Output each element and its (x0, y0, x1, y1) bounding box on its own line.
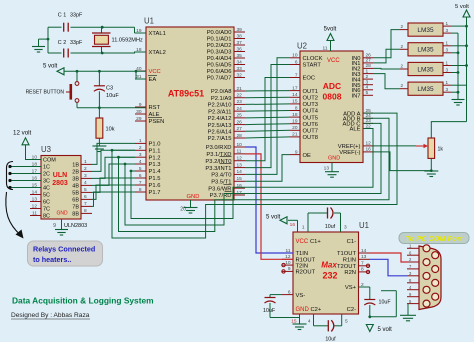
svg-text:U1: U1 (144, 17, 154, 26)
svg-text:7: 7 (361, 261, 364, 267)
svg-text:15: 15 (292, 99, 298, 105)
svg-text:P3.0/RXD: P3.0/RXD (206, 145, 232, 151)
svg-text:8C: 8C (43, 214, 50, 220)
svg-text:Data Acquisition & Logging Sys: Data Acquisition & Logging System (12, 296, 154, 306)
svg-text:26: 26 (366, 53, 372, 59)
svg-text:33pF: 33pF (70, 40, 83, 46)
svg-text:P2.4/A12: P2.4/A12 (208, 116, 232, 122)
svg-text:OUT4: OUT4 (303, 109, 319, 115)
svg-text:1: 1 (446, 41, 449, 46)
svg-text:1: 1 (446, 80, 449, 85)
svg-text:P2.3/A11: P2.3/A11 (208, 109, 231, 115)
svg-text:3: 3 (84, 173, 87, 179)
svg-text:VCC: VCC (296, 239, 309, 245)
svg-text:3B: 3B (72, 177, 79, 183)
svg-text:R2OUT: R2OUT (296, 270, 316, 276)
svg-text:GND: GND (296, 307, 310, 313)
svg-text:8: 8 (139, 187, 142, 193)
svg-text:C 1: C 1 (58, 13, 66, 19)
svg-text:28: 28 (366, 63, 372, 69)
svg-text:R2N: R2N (344, 270, 356, 276)
svg-text:To PC COM Port: To PC COM Port (406, 236, 463, 243)
svg-text:GND: GND (57, 211, 69, 217)
svg-text:T1IN: T1IN (296, 251, 309, 257)
svg-text:P0.0/AD0: P0.0/AD0 (207, 30, 232, 36)
svg-text:U2: U2 (297, 42, 307, 51)
svg-text:3: 3 (446, 67, 449, 72)
svg-text:9: 9 (53, 223, 56, 229)
svg-text:GND: GND (187, 194, 200, 200)
svg-text:IN7: IN7 (351, 94, 360, 100)
svg-text:2: 2 (366, 74, 369, 80)
svg-text:11: 11 (323, 46, 328, 52)
svg-text:C1+: C1+ (310, 239, 321, 245)
svg-text:P0.4/AD4: P0.4/AD4 (207, 56, 233, 62)
svg-text:AT89c51: AT89c51 (168, 89, 204, 99)
svg-text:P3.3/INT1: P3.3/INT1 (205, 166, 231, 172)
svg-text:Designed By : Abbas Raza: Designed By : Abbas Raza (11, 312, 90, 319)
svg-text:38: 38 (237, 33, 243, 39)
svg-text:11: 11 (32, 210, 37, 216)
svg-text:18: 18 (292, 112, 298, 118)
svg-text:27: 27 (237, 126, 243, 132)
svg-text:14: 14 (32, 189, 38, 195)
svg-text:3: 3 (446, 28, 449, 33)
svg-text:LM35: LM35 (417, 86, 434, 93)
svg-text:8: 8 (295, 105, 298, 111)
svg-text:33pF: 33pF (70, 13, 83, 19)
svg-text:1B: 1B (72, 163, 79, 169)
svg-text:6: 6 (139, 173, 142, 179)
svg-text:P0.3/AD3: P0.3/AD3 (207, 50, 232, 56)
svg-text:C3: C3 (106, 86, 113, 92)
svg-text:1C: 1C (43, 165, 50, 171)
svg-text:P2.6/A14: P2.6/A14 (208, 129, 233, 135)
svg-text:P3.4/T0: P3.4/T0 (211, 173, 231, 179)
svg-text:3: 3 (366, 80, 369, 86)
svg-text:EOC: EOC (303, 76, 316, 82)
svg-text:P1.3: P1.3 (149, 162, 161, 168)
svg-text:EA: EA (149, 77, 157, 83)
svg-text:4: 4 (84, 180, 87, 186)
svg-text:7: 7 (84, 201, 87, 207)
svg-text:LM35: LM35 (417, 47, 434, 54)
svg-text:ULN2803: ULN2803 (64, 223, 87, 229)
svg-text:3: 3 (344, 225, 347, 231)
svg-text:Max: Max (321, 261, 337, 270)
svg-text:12: 12 (237, 156, 243, 162)
svg-text:RESET BUTTON: RESET BUTTON (26, 90, 65, 96)
svg-text:11.0592MHz: 11.0592MHz (112, 38, 144, 44)
svg-text:1: 1 (446, 60, 449, 65)
svg-text:16: 16 (237, 183, 243, 189)
svg-text:P0.7/AD7: P0.7/AD7 (207, 76, 232, 82)
svg-text:9: 9 (295, 149, 298, 155)
svg-text:5: 5 (366, 90, 369, 96)
svg-text:2: 2 (139, 145, 142, 151)
svg-text:T2OUT: T2OUT (337, 264, 356, 270)
svg-text:R1IN: R1IN (343, 258, 356, 264)
svg-text:17: 17 (292, 85, 298, 91)
svg-text:T1OUT: T1OUT (337, 251, 356, 257)
svg-text:36: 36 (237, 46, 243, 52)
svg-text:232: 232 (322, 271, 337, 281)
svg-text:4: 4 (308, 319, 311, 325)
svg-text:14: 14 (361, 248, 367, 254)
svg-text:LM35: LM35 (417, 66, 434, 73)
svg-text:1: 1 (302, 225, 305, 231)
svg-text:10uf: 10uf (325, 224, 336, 230)
svg-text:26: 26 (237, 119, 243, 125)
svg-text:C 2: C 2 (58, 40, 66, 46)
svg-text:VREF(-): VREF(-) (339, 150, 360, 156)
svg-text:2: 2 (400, 24, 403, 29)
svg-text:25: 25 (237, 113, 243, 119)
svg-text:28: 28 (237, 133, 243, 139)
svg-text:GND: GND (328, 156, 340, 162)
svg-text:1: 1 (366, 68, 369, 74)
svg-text:10: 10 (285, 260, 291, 266)
svg-text:to heaters..: to heaters.. (33, 255, 71, 264)
svg-text:5: 5 (84, 187, 87, 193)
svg-text:T2IN: T2IN (296, 263, 309, 269)
svg-text:P0.5/AD5: P0.5/AD5 (207, 63, 232, 69)
svg-text:14: 14 (292, 92, 298, 98)
svg-text:PSEN: PSEN (149, 119, 165, 125)
svg-text:24: 24 (237, 106, 243, 112)
svg-text:7: 7 (295, 72, 298, 78)
svg-text:6B: 6B (72, 198, 79, 204)
svg-text:P3.2/INT0: P3.2/INT0 (205, 159, 231, 165)
svg-text:VS+: VS+ (345, 285, 357, 291)
svg-text:21: 21 (237, 86, 243, 92)
svg-text:5C: 5C (43, 193, 50, 199)
svg-text:2C: 2C (43, 172, 50, 178)
svg-text:5 volt: 5 volt (266, 215, 281, 221)
svg-text:3: 3 (446, 48, 449, 53)
svg-text:P3.7/RD: P3.7/RD (210, 193, 232, 199)
svg-text:35: 35 (237, 53, 243, 59)
svg-text:COM: COM (43, 158, 56, 164)
svg-text:P2.2/A10: P2.2/A10 (208, 103, 232, 109)
svg-text:6C: 6C (43, 200, 50, 206)
svg-text:5: 5 (139, 166, 142, 172)
svg-text:27: 27 (366, 58, 372, 64)
svg-text:Relays Connected: Relays Connected (33, 245, 95, 254)
svg-text:13: 13 (32, 196, 38, 202)
svg-text:OUT3: OUT3 (303, 102, 318, 108)
svg-text:OUT6: OUT6 (303, 122, 318, 128)
svg-text:37: 37 (237, 40, 243, 46)
svg-text:12 volt: 12 volt (13, 130, 32, 137)
svg-text:3C: 3C (43, 179, 50, 185)
svg-text:7: 7 (139, 180, 142, 186)
svg-text:P2.5/A13: P2.5/A13 (208, 123, 232, 129)
svg-text:20: 20 (292, 125, 298, 131)
svg-text:21: 21 (292, 132, 298, 138)
svg-text:VS-: VS- (296, 293, 306, 299)
svg-text:10uF: 10uF (263, 308, 276, 314)
svg-text:4C: 4C (43, 186, 50, 192)
svg-text:5 volt: 5 volt (378, 327, 393, 333)
svg-text:5: 5 (345, 319, 348, 325)
svg-text:P2.1/A9: P2.1/A9 (211, 96, 232, 102)
svg-text:10uF: 10uF (379, 300, 392, 306)
svg-text:OUT5: OUT5 (303, 115, 318, 121)
svg-text:4B: 4B (72, 184, 79, 190)
svg-text:U1: U1 (359, 221, 369, 230)
svg-text:1: 1 (139, 138, 142, 144)
svg-text:16: 16 (290, 222, 296, 228)
svg-text:32: 32 (237, 72, 243, 78)
svg-text:2B: 2B (72, 170, 79, 176)
svg-text:11: 11 (237, 149, 242, 155)
svg-text:5B: 5B (72, 191, 79, 197)
svg-text:P0.6/AD6: P0.6/AD6 (207, 69, 232, 75)
svg-text:2803: 2803 (52, 180, 68, 187)
svg-text:5 volt: 5 volt (43, 64, 58, 70)
svg-text:4: 4 (139, 159, 142, 165)
svg-text:2: 2 (84, 166, 87, 172)
svg-text:P1.1: P1.1 (149, 149, 161, 155)
svg-text:5volt: 5volt (324, 27, 337, 33)
svg-text:P1.5: P1.5 (149, 176, 161, 182)
svg-text:30: 30 (136, 109, 142, 115)
svg-text:ULN: ULN (53, 172, 67, 179)
svg-text:LM35: LM35 (417, 27, 434, 34)
svg-text:P3.1/TXD: P3.1/TXD (206, 152, 231, 158)
svg-text:10uF: 10uF (106, 93, 119, 99)
svg-text:33: 33 (237, 66, 243, 72)
svg-text:OUT2: OUT2 (303, 96, 318, 102)
svg-text:P1.7: P1.7 (149, 190, 161, 196)
svg-text:C1-: C1- (347, 239, 356, 245)
svg-text:9: 9 (288, 266, 291, 272)
svg-text:1: 1 (84, 159, 87, 165)
svg-text:CLOCK: CLOCK (303, 56, 323, 62)
svg-text:1k: 1k (438, 147, 444, 153)
svg-text:12: 12 (32, 203, 38, 209)
svg-text:34: 34 (237, 59, 243, 65)
svg-text:14: 14 (237, 169, 243, 175)
svg-text:C2+: C2+ (311, 307, 322, 313)
svg-text:15: 15 (237, 176, 243, 182)
svg-text:10k: 10k (106, 127, 115, 133)
svg-text:6: 6 (288, 289, 291, 295)
svg-text:P2.0/A8: P2.0/A8 (211, 89, 232, 95)
svg-text:17: 17 (237, 190, 243, 196)
svg-text:13: 13 (237, 162, 243, 168)
svg-text:2: 2 (400, 44, 403, 49)
svg-text:10: 10 (237, 142, 243, 148)
svg-text:ADC: ADC (323, 81, 341, 91)
svg-text:2: 2 (400, 64, 403, 69)
svg-text:7B: 7B (72, 205, 79, 211)
svg-text:3: 3 (446, 87, 449, 92)
svg-text:6: 6 (84, 194, 87, 200)
svg-text:VCC: VCC (327, 58, 340, 64)
svg-text:7C: 7C (43, 207, 50, 213)
svg-text:2: 2 (400, 83, 403, 88)
svg-text:P1.4: P1.4 (149, 169, 162, 175)
svg-text:39: 39 (237, 27, 243, 33)
svg-text:13: 13 (361, 254, 367, 260)
svg-text:P1.6: P1.6 (149, 183, 161, 189)
svg-text:8: 8 (84, 208, 87, 214)
svg-text:23: 23 (237, 99, 243, 105)
svg-text:10: 10 (292, 53, 298, 59)
svg-text:OUT8: OUT8 (303, 135, 318, 141)
svg-text:29: 29 (136, 116, 142, 122)
svg-text:12: 12 (366, 141, 372, 147)
svg-text:RST: RST (149, 105, 161, 111)
svg-text:P1.2: P1.2 (149, 155, 161, 161)
svg-text:16: 16 (366, 147, 372, 153)
svg-text:VCC: VCC (149, 69, 161, 75)
svg-text:XTAL1: XTAL1 (149, 31, 166, 37)
svg-text:U3: U3 (41, 145, 51, 154)
svg-text:OE: OE (303, 153, 312, 159)
svg-text:ALE: ALE (350, 127, 361, 133)
svg-text:5 volt: 5 volt (455, 4, 469, 10)
svg-text:8B: 8B (72, 212, 79, 218)
svg-text:8: 8 (361, 267, 364, 273)
svg-text:6: 6 (295, 59, 298, 65)
svg-text:22: 22 (237, 93, 243, 99)
svg-text:XTAL2: XTAL2 (149, 50, 166, 56)
svg-text:10uf: 10uf (325, 337, 336, 342)
svg-text:0808: 0808 (323, 92, 342, 102)
svg-text:P1.0: P1.0 (149, 142, 161, 148)
svg-text:19: 19 (292, 119, 298, 125)
svg-text:P2.7/A15: P2.7/A15 (208, 136, 232, 142)
svg-text:P0.1/AD1: P0.1/AD1 (207, 37, 232, 43)
svg-text:13: 13 (324, 166, 330, 172)
svg-text:C2-: C2- (347, 307, 356, 313)
svg-text:3: 3 (139, 152, 142, 158)
svg-text:P0.2/AD2: P0.2/AD2 (207, 43, 232, 49)
svg-text:START: START (303, 63, 322, 69)
svg-text:4: 4 (366, 85, 369, 91)
svg-text:1: 1 (446, 21, 449, 26)
svg-text:OUT1: OUT1 (303, 89, 318, 95)
svg-text:9: 9 (139, 102, 142, 108)
svg-text:OUT7: OUT7 (303, 129, 318, 135)
